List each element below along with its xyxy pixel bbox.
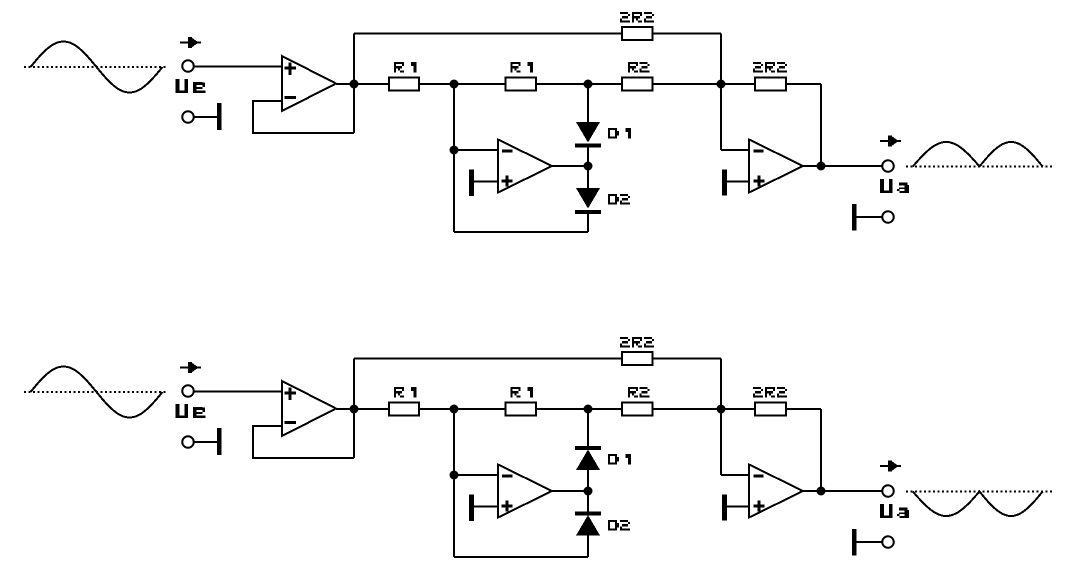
output ground bar (top) [852,204,857,231]
node U3 output (bottom) [817,487,826,496]
output ground bar (bottom) [852,529,857,556]
output waveform full-wave negative (bottom) [913,492,1043,517]
diode D1 (top, cathode down) [575,122,601,148]
input ground bar (bottom) [217,428,222,455]
diode D1 (bottom, cathode up) [575,446,601,470]
wire node B vertical (top) [453,84,455,232]
wire U1 feedback (top) [253,101,354,133]
wire U2 output to diode node (bottom) [552,490,588,492]
wire output ground (bottom) [857,541,883,543]
label 2R2 top (top) [620,12,654,23]
output waveform full-wave positive (top) [913,142,1043,167]
output ground terminal (top) [882,211,894,223]
wire node B to U2 inverting input (bottom) [454,474,498,476]
output waveform axis (bottom) [906,491,1052,493]
wire main line (bottom) [336,408,821,410]
node U1 output (top) [350,80,359,89]
terminal Ue (top) [182,60,194,72]
wire U2 output to diode node (top) [552,165,588,167]
wire U3 output to Ua (bottom) [803,490,883,492]
wire U3 non-inverting to ground (bottom) [727,506,749,508]
wire output ground (top) [857,216,883,218]
terminal Ue (bottom) [182,385,194,397]
resistor 2R2 feedback U3 (bottom) [755,403,786,416]
wire 2R2 to U3 output (top) [820,84,822,166]
diode D2 (top, cathode down) [575,188,601,214]
label Ua (bottom) [880,504,909,518]
node C main line (bottom) [717,405,726,414]
label 2R2 feedback (top) [753,62,787,73]
label D2 (bottom) [608,520,630,531]
output arrow (bottom) [880,461,901,472]
input sine wave (top) [31,42,163,93]
wire Ue to op-amp U1 (top) [194,66,283,68]
op-amp U1 (bottom) [282,381,336,436]
node B main line (bottom) [450,405,459,414]
wire node B to U2 inverting input (top) [454,149,498,151]
node U3 output (top) [817,162,826,171]
label R1 first (bottom) [394,387,417,398]
label R1 second (bottom) [511,387,534,398]
wire U2 non-inverting to ground (bottom) [474,506,498,508]
wire U3 output to Ua (top) [803,165,883,167]
wire bottom rail (bottom) [454,556,588,558]
input waveform axis (bottom) [24,391,167,393]
resistor R1 first (top) [389,78,419,91]
resistor R2 (top) [622,78,653,91]
label 2R2 feedback (bottom) [753,387,787,398]
op-amp U3 (bottom) [749,465,803,518]
input ground terminal (bottom) [182,436,194,448]
node between diodes (bottom) [584,487,593,496]
wire D1 to D2 (bottom) [587,470,589,512]
resistor R2 (bottom) [622,403,653,416]
wire top feedback line (top) [354,34,721,85]
input ground terminal (top) [182,111,194,123]
label D2 (top) [608,194,630,205]
op-amp U2 (bottom) [498,465,552,518]
node U2 inverting input (top) [450,146,459,155]
wire main to diode D1 (top) [587,84,589,122]
resistor 2R2 top feedback (top) [622,27,653,40]
wire vertical node A (bottom) [353,359,355,459]
label R2 (bottom) [628,387,650,398]
wire main to diode D1 (bottom) [587,409,589,447]
wire input ground (bottom) [194,441,218,443]
node U2 inverting input (bottom) [450,471,459,480]
node diode branch main (top) [584,80,593,89]
output ground terminal (bottom) [882,536,894,548]
input sine wave (bottom) [31,367,163,418]
wire U1 feedback (bottom) [253,426,354,458]
wire top feedback line (bottom) [354,359,721,410]
label Ua (top) [880,179,909,193]
wire D2 to rail (bottom) [587,536,589,558]
wire node B vertical (bottom) [453,409,455,557]
label 2R2 top (bottom) [620,337,654,348]
op-amp U3 (top) [749,140,803,193]
label D1 (top) [608,128,631,139]
resistor 2R2 top feedback (bottom) [622,352,653,365]
wire node C to U3 inverting (bottom) [721,409,749,475]
node between diodes (top) [584,162,593,171]
label R2 (top) [628,62,650,73]
U3 ground bar (top) [722,170,727,196]
U2 ground bar (bottom) [469,495,474,522]
input ground bar (top) [217,103,222,130]
input waveform axis (top) [24,66,167,68]
op-amp U1 (top) [282,56,336,111]
wire vertical node A (top) [353,34,355,134]
label Ue (top) [176,79,206,93]
node diode branch main (bottom) [584,405,593,414]
label R1 first (top) [394,62,417,73]
node C main line (top) [717,80,726,89]
wire U3 non-inverting to ground (top) [727,181,749,183]
wire D2 to rail (top) [587,214,589,232]
wire node C to U3 inverting (top) [721,84,749,150]
diode D2 (bottom, cathode up) [575,512,601,536]
node U1 output (bottom) [350,405,359,414]
terminal Ua (top) [882,160,894,172]
wire U2 non-inverting to ground (top) [474,181,498,183]
wire 2R2 to U3 output (bottom) [820,409,822,491]
label Ue (bottom) [176,404,206,418]
resistor R1 second (top) [506,78,537,91]
U3 ground bar (bottom) [722,495,727,521]
wire D1 to D2 (top) [587,148,589,189]
op-amp U2 (top) [498,140,552,193]
wire input ground (top) [194,116,218,118]
wire main line (top) [336,83,821,85]
terminal Ua (bottom) [882,485,894,497]
label R1 second (top) [511,62,534,73]
U2 ground bar (top) [469,170,474,197]
output waveform axis (top) [906,166,1052,168]
resistor R1 second (bottom) [506,403,537,416]
output arrow (top) [880,136,901,147]
node B main line (top) [450,80,459,89]
input arrow (bottom) [180,362,201,373]
label D1 (bottom) [608,454,631,465]
input arrow (top) [180,37,201,48]
wire bottom rail (top) [454,231,588,233]
resistor R1 first (bottom) [389,403,419,416]
wire Ue to op-amp U1 (bottom) [194,391,283,393]
resistor 2R2 feedback U3 (top) [755,78,786,91]
